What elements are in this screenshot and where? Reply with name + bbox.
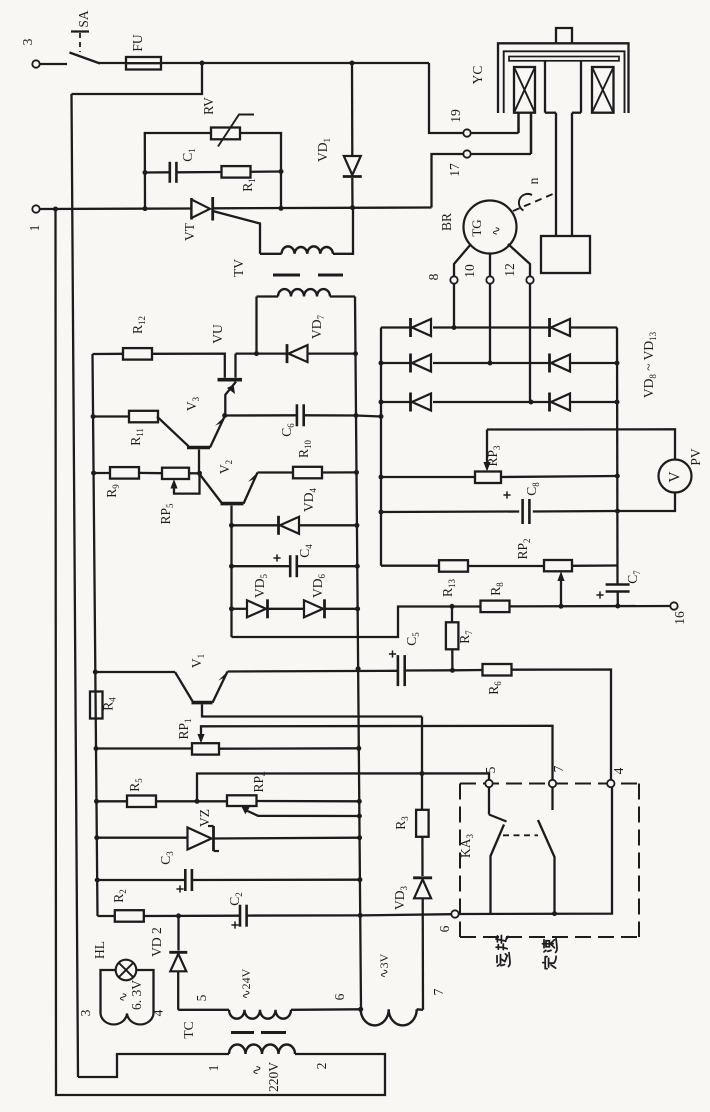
wire [352, 62, 429, 64]
terminal 8 [450, 276, 457, 283]
wire [421, 837, 423, 877]
svg-text:3: 3 [20, 38, 35, 45]
svg-text:n: n [526, 177, 541, 184]
label run [496, 935, 510, 966]
junction [358, 1007, 363, 1012]
wire [511, 670, 611, 780]
svg-text:BR: BR [439, 213, 454, 231]
wire [144, 915, 240, 918]
svg-text:∿3V: ∿3V [377, 953, 391, 978]
wire [325, 608, 358, 610]
svg-text:YC: YC [470, 66, 485, 85]
junction [195, 799, 200, 804]
svg-text:∿: ∿ [116, 992, 130, 1002]
wire [381, 362, 411, 364]
junction [94, 746, 99, 751]
svg-text:6. 3V: 6. 3V [129, 980, 144, 1010]
wire [214, 206, 432, 209]
diode VD13 [548, 393, 551, 412]
label YC [470, 66, 485, 85]
svg-text:RV: RV [201, 97, 216, 115]
wire [454, 244, 471, 276]
svg-text:TG: TG [469, 219, 484, 236]
resistor R13 [381, 565, 439, 567]
potentiometer RP1 [192, 743, 219, 754]
junction [529, 400, 534, 405]
svg-text:VT: VT [182, 222, 197, 241]
capacitor C6 [225, 414, 297, 417]
zener diode VZ [97, 837, 188, 839]
svg-text:TV: TV [231, 259, 246, 277]
wire [417, 1008, 423, 1011]
resistor R2 [98, 915, 116, 917]
resistor R1 [222, 166, 251, 178]
wire [95, 671, 175, 673]
capacitor C8 [381, 510, 519, 513]
diode VD8 [409, 318, 412, 337]
terminal 3 [32, 60, 39, 67]
svg-text:17: 17 [447, 163, 462, 177]
wire [99, 62, 202, 64]
varistor RV [211, 128, 240, 140]
resistor R9 [94, 472, 111, 474]
chuck YC yoke [498, 43, 629, 113]
svg-text:6: 6 [332, 993, 347, 1000]
diode VD6 [323, 599, 326, 618]
wire [219, 747, 359, 750]
wire [230, 566, 232, 609]
wire [422, 898, 425, 1009]
resistor R3 [416, 810, 429, 837]
unijunction transistor VU [218, 378, 243, 382]
junction [143, 206, 148, 211]
wire [40, 63, 68, 65]
wire [616, 328, 619, 585]
resistor R12 [93, 353, 124, 356]
junction [229, 606, 234, 611]
chuck YC armature bar [509, 57, 619, 61]
wire [530, 113, 532, 154]
chuck YC shaft stub [556, 28, 572, 45]
svg-text:∿: ∿ [249, 1065, 264, 1076]
wire [529, 284, 531, 402]
svg-text:4: 4 [611, 767, 626, 774]
svg-text:V: V [667, 471, 684, 483]
diode VD7 [257, 352, 288, 354]
svg-text:7: 7 [551, 765, 566, 772]
svg-text:2: 2 [314, 1063, 329, 1070]
svg-text:19: 19 [448, 109, 463, 123]
wire [380, 328, 382, 566]
svg-text:5: 5 [483, 766, 498, 773]
junction [615, 604, 620, 609]
wire [421, 717, 423, 811]
junction [200, 61, 205, 66]
svg-text:HL: HL [92, 941, 107, 959]
potentiometer RP3 [475, 472, 501, 484]
wire [232, 607, 482, 638]
resistor R10 [258, 471, 294, 473]
potentiometer RP2 [544, 560, 572, 571]
svg-text:1: 1 [206, 1065, 221, 1072]
capacitor C5 [228, 670, 399, 673]
junction [279, 169, 284, 174]
svg-text:∿: ∿ [489, 226, 503, 236]
wire [487, 429, 675, 459]
terminal 10 [486, 276, 493, 283]
terminal 5 [485, 780, 492, 787]
wire [178, 1009, 229, 1011]
diode VD10 [409, 393, 412, 412]
diode VD1 [351, 63, 354, 156]
terminal 19 [463, 129, 470, 136]
wire [268, 608, 306, 610]
transformer TV primary [260, 253, 282, 255]
wire [291, 1008, 361, 1011]
wire [381, 476, 475, 478]
chuck YC spindle shaft [555, 113, 557, 236]
terminal 6 [451, 910, 458, 917]
wire [489, 284, 491, 363]
junction [420, 771, 425, 776]
wire [240, 133, 281, 208]
wire [230, 609, 232, 637]
tachogenerator TG [464, 201, 517, 254]
wire [202, 62, 352, 64]
potentiometer RP5 [162, 468, 189, 479]
diode VD5 [232, 608, 248, 610]
resistor R8 [481, 601, 510, 613]
junction [176, 913, 181, 918]
wire [201, 726, 553, 780]
junction [450, 668, 455, 673]
wire [156, 800, 227, 802]
junction [197, 471, 202, 476]
lamp HL [116, 960, 137, 981]
capacitor C2 [239, 905, 242, 927]
terminal 12 [526, 276, 533, 283]
svg-text:PV: PV [688, 448, 703, 466]
terminal 1 [32, 205, 39, 212]
workpiece block [541, 236, 590, 273]
svg-text:4: 4 [151, 1009, 166, 1016]
wire [471, 132, 519, 134]
transistor V3 [157, 417, 189, 447]
relay box KA3 [460, 783, 639, 785]
svg-text:VD8 ~ VD13: VD8 ~ VD13 [641, 331, 658, 398]
resistor R4 [90, 692, 103, 719]
wire [152, 354, 225, 378]
svg-text:12: 12 [502, 263, 517, 277]
wire [72, 63, 203, 94]
wire [572, 564, 618, 567]
wire [429, 63, 463, 133]
junction [559, 604, 564, 609]
terminal 17 [463, 150, 470, 157]
svg-text:8: 8 [426, 273, 441, 280]
junction [488, 361, 493, 366]
svg-text:SA: SA [76, 10, 91, 28]
wire [489, 254, 491, 277]
voltmeter PV [659, 460, 692, 493]
wire [138, 472, 162, 475]
terminal 7 [549, 780, 556, 787]
wire [468, 565, 544, 567]
wire [250, 170, 281, 173]
rotation n mark [513, 194, 553, 211]
svg-text:220V: 220V [266, 1062, 281, 1092]
transformer TV secondary [255, 297, 257, 354]
resistor R6 [452, 669, 483, 672]
svg-text:1: 1 [27, 225, 42, 232]
chuck YC coil left [514, 67, 535, 113]
wire [501, 476, 617, 477]
junction [552, 911, 557, 916]
wire [381, 326, 411, 328]
lamp winding 3-4 [101, 970, 116, 1014]
svg-text:VZ: VZ [197, 809, 212, 827]
transformer TV core [273, 274, 300, 277]
chuck YC center pole [544, 61, 546, 113]
wire [40, 207, 192, 210]
wire [176, 171, 222, 174]
capacitor C7 [606, 583, 630, 586]
resistor R11 [93, 415, 130, 417]
transistor V1 [175, 672, 193, 702]
svg-text:10: 10 [462, 264, 477, 278]
junction [356, 746, 361, 751]
wire [355, 297, 361, 1009]
capacitor C1 [145, 171, 170, 173]
wire [197, 773, 489, 801]
transformer TC primary 220V [78, 1054, 229, 1077]
transistor V2 [200, 474, 222, 503]
relay contact run [488, 787, 490, 814]
svg-text:7: 7 [431, 988, 446, 995]
resistor R5 [97, 800, 128, 802]
diode VD9 [409, 354, 412, 373]
wire [517, 113, 519, 133]
svg-text:16: 16 [672, 611, 687, 625]
transformer TC 3V winding [361, 1009, 417, 1025]
transformer TC core [231, 1031, 254, 1034]
capacitor C3 [97, 879, 185, 881]
relay contact speed [551, 787, 553, 810]
transformer TC 24V winding [229, 1010, 291, 1019]
junction [279, 206, 284, 211]
terminal 16 [670, 602, 677, 609]
junction [53, 207, 58, 212]
linkage [503, 834, 538, 836]
label VD8~VD13 [641, 331, 658, 398]
wire [617, 493, 675, 512]
label speed [543, 938, 558, 968]
wire [360, 914, 451, 915]
svg-text:FU: FU [130, 34, 145, 52]
svg-text:∿24V: ∿24V [239, 968, 253, 999]
junction [450, 604, 455, 609]
junction [254, 351, 259, 356]
wire [432, 154, 464, 208]
wire [509, 605, 670, 608]
diode VD2 [177, 916, 179, 951]
junction [229, 564, 234, 569]
potentiometer RP4 [227, 795, 257, 806]
capacitor C4 [232, 565, 291, 567]
svg-text:TC: TC [181, 1021, 196, 1038]
wire [381, 401, 411, 403]
switch SA [70, 53, 101, 64]
terminal 4 [607, 780, 614, 787]
wire [471, 153, 531, 155]
svg-text:3: 3 [78, 1009, 93, 1016]
svg-text:VD 2: VD 2 [149, 927, 164, 957]
svg-text:6: 6 [437, 925, 452, 932]
wire [230, 525, 232, 566]
junction [452, 325, 457, 330]
wire [96, 747, 192, 749]
junction [229, 523, 234, 528]
thyristor VT [190, 198, 193, 220]
junction [93, 670, 98, 675]
wire [189, 472, 200, 474]
diode VD12 [548, 354, 551, 373]
wire [356, 416, 381, 417]
junction [350, 205, 355, 210]
wire [145, 133, 211, 209]
wire [93, 354, 98, 916]
diode VD11 [548, 318, 551, 337]
svg-text:VU: VU [210, 324, 225, 344]
wire [453, 284, 455, 328]
wire [459, 787, 612, 914]
wire [236, 352, 257, 354]
junction [350, 61, 355, 66]
wire [508, 244, 530, 276]
chuck YC coil right [592, 67, 614, 113]
wire [257, 800, 360, 803]
resistor R7 [451, 606, 453, 622]
diode VD3 [413, 876, 432, 879]
junction [222, 413, 227, 418]
label BR [439, 213, 454, 231]
diode VD4 [232, 524, 279, 526]
svg-text:5: 5 [194, 994, 209, 1001]
wire [72, 94, 79, 1077]
junction [143, 170, 148, 175]
fuse FU [126, 57, 161, 70]
